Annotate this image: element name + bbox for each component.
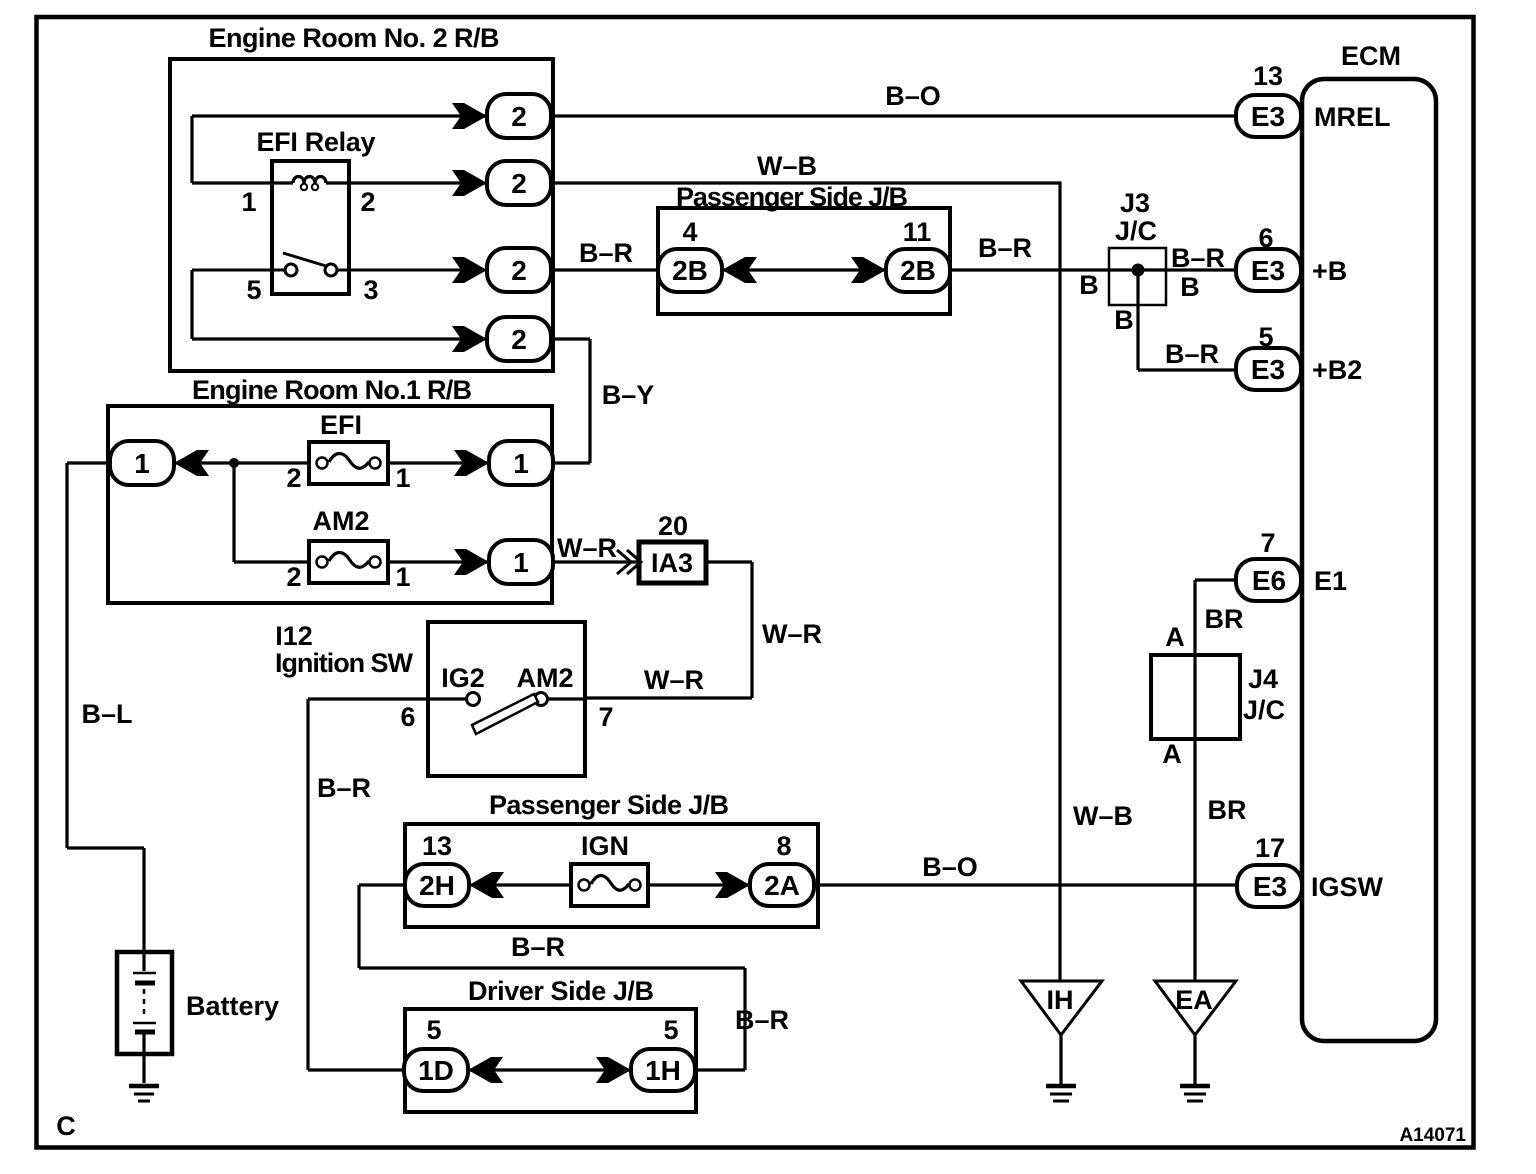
- svg-text:E3: E3: [1251, 255, 1285, 286]
- relay EFI Relay: [257, 127, 376, 294]
- junction box Driver Side J/B: [405, 976, 696, 1112]
- svg-text:5: 5: [246, 275, 261, 305]
- svg-text:4: 4: [682, 217, 697, 247]
- svg-text:Engine Room No.1 R/B: Engine Room No.1 R/B: [192, 375, 472, 405]
- svg-text:IGN: IGN: [581, 831, 629, 861]
- connector E3 pin 5 +B2: [1236, 322, 1362, 390]
- svg-text:J/C: J/C: [1243, 695, 1285, 725]
- svg-text:B: B: [1114, 305, 1134, 335]
- svg-text:7: 7: [598, 702, 613, 732]
- svg-text:6: 6: [400, 702, 415, 732]
- svg-text:2: 2: [360, 187, 375, 217]
- svg-text:C: C: [56, 1111, 76, 1141]
- svg-text:13: 13: [1253, 61, 1283, 91]
- svg-text:B: B: [1079, 270, 1099, 300]
- connector 2B left: [658, 249, 757, 292]
- svg-text:B–Y: B–Y: [602, 380, 655, 410]
- wire W-R IA3 to ignition switch AM2: [585, 562, 752, 698]
- connector E3 pin 17 IGSW: [1237, 833, 1384, 907]
- wire B-O from EFI relay pin 1 to ECM MREL: [192, 116, 1236, 183]
- svg-text:2: 2: [511, 168, 527, 199]
- svg-text:A14071: A14071: [1399, 1125, 1466, 1146]
- wire between 1D and 1H: [468, 1068, 631, 1071]
- svg-text:+B: +B: [1312, 256, 1347, 286]
- svg-text:W–R: W–R: [644, 665, 704, 695]
- svg-text:5: 5: [426, 1015, 441, 1045]
- svg-text:B–R: B–R: [511, 932, 565, 962]
- svg-text:IGSW: IGSW: [1311, 872, 1384, 902]
- svg-text:1H: 1H: [645, 1055, 681, 1086]
- fuse EFI: [309, 410, 388, 484]
- svg-text:ECM: ECM: [1341, 41, 1401, 71]
- svg-text:11: 11: [903, 217, 932, 247]
- svg-text:13: 13: [422, 831, 452, 861]
- svg-text:I12: I12: [275, 621, 313, 651]
- connector 2B right: [851, 249, 950, 292]
- svg-text:W–R: W–R: [762, 619, 822, 649]
- svg-text:AM2: AM2: [312, 506, 369, 536]
- svg-text:2B: 2B: [900, 255, 936, 286]
- svg-text:J3: J3: [1120, 188, 1150, 218]
- connector E6 pin 7 E1: [1236, 528, 1347, 601]
- connector 2 (row 3): [452, 248, 551, 292]
- wire J3 to +B2: [1138, 270, 1236, 370]
- ECM: [1302, 41, 1436, 1041]
- svg-text:2: 2: [286, 562, 301, 592]
- svg-text:B–R: B–R: [978, 233, 1032, 263]
- wire B-L battery to connector 1: [67, 463, 144, 952]
- wire B-Y connector 2 to Engine Room No.1 R/B: [551, 339, 590, 463]
- svg-text:BR: BR: [1208, 795, 1247, 825]
- svg-text:2B: 2B: [672, 255, 708, 286]
- svg-text:20: 20: [658, 511, 688, 541]
- svg-text:EA: EA: [1175, 985, 1213, 1015]
- svg-text:B–R: B–R: [735, 1005, 789, 1035]
- connector IA3 pin 20: [639, 511, 706, 583]
- svg-text:A: A: [1162, 739, 1182, 769]
- svg-text:IA3: IA3: [651, 548, 693, 578]
- connector 2H: [405, 864, 504, 906]
- connector 1H: [596, 1049, 695, 1091]
- svg-text:2: 2: [511, 101, 527, 132]
- svg-text:E3: E3: [1251, 101, 1285, 132]
- connector E3 pin 13 MREL: [1236, 61, 1391, 137]
- wire B-R 2B to J3: [950, 268, 1236, 271]
- svg-text:A: A: [1165, 622, 1185, 652]
- svg-text:1: 1: [513, 547, 529, 578]
- svg-text:+B2: +B2: [1312, 355, 1362, 385]
- wire B-O 2A to ECM IGSW: [814, 883, 1236, 886]
- svg-text:1: 1: [134, 448, 150, 479]
- svg-text:E3: E3: [1251, 354, 1285, 385]
- wire E1 to E6: [1195, 580, 1236, 981]
- junction box Engine Room No.1 R/B: [108, 375, 552, 603]
- switch I12 Ignition SW: [275, 621, 585, 776]
- svg-text:1D: 1D: [418, 1055, 454, 1086]
- svg-text:W–B: W–B: [1073, 801, 1133, 831]
- svg-text:E3: E3: [1253, 871, 1287, 902]
- connector 2 (row 4): [452, 317, 551, 361]
- wire relay pin 5 to connector 2 (B-Y): [192, 270, 487, 339]
- svg-text:MREL: MREL: [1314, 102, 1391, 132]
- svg-text:B–O: B–O: [885, 81, 941, 111]
- connector 1 (AM2 out): [454, 540, 553, 584]
- wire W-R AM2 connector to IA3: [553, 560, 639, 563]
- svg-text:B–L: B–L: [81, 699, 132, 729]
- svg-text:2: 2: [511, 324, 527, 355]
- relay switch contacts: [192, 253, 487, 276]
- svg-text:BR: BR: [1205, 604, 1244, 634]
- svg-text:2: 2: [511, 255, 527, 286]
- junction connector J3 J/C: [1109, 188, 1166, 305]
- svg-text:B–R: B–R: [1171, 243, 1225, 273]
- svg-text:1: 1: [513, 448, 529, 479]
- svg-text:IH: IH: [1047, 985, 1074, 1015]
- svg-text:Driver Side J/B: Driver Side J/B: [468, 976, 654, 1006]
- junction box Passenger Side J/B (lower): [405, 790, 818, 927]
- svg-text:1: 1: [395, 463, 410, 493]
- junction connector J4 J/C: [1151, 622, 1285, 769]
- connector 1D: [404, 1049, 503, 1091]
- svg-text:Engine Room No. 2 R/B: Engine Room No. 2 R/B: [209, 23, 500, 53]
- svg-text:IG2: IG2: [441, 663, 485, 693]
- ignition switch wires and contacts: [308, 693, 585, 735]
- svg-text:E1: E1: [1314, 566, 1347, 596]
- svg-text:1: 1: [241, 187, 256, 217]
- svg-text:7: 7: [1260, 528, 1275, 558]
- ground IH: [1021, 981, 1102, 1101]
- wire AM2 fuse row: [234, 463, 489, 562]
- svg-text:8: 8: [776, 831, 791, 861]
- connector 2 (row 1): [452, 94, 551, 138]
- svg-text:1: 1: [395, 562, 410, 592]
- junction box Passenger Side J/B (upper): [658, 182, 950, 314]
- wire B-R ignition switch to driver side J/B: [308, 699, 404, 1070]
- svg-text:J/C: J/C: [1115, 216, 1157, 246]
- ground below battery: [129, 1086, 159, 1101]
- svg-text:EFI Relay: EFI Relay: [257, 127, 376, 157]
- junction dot: [229, 458, 239, 468]
- svg-text:J4: J4: [1248, 664, 1278, 694]
- svg-text:Ignition SW: Ignition SW: [275, 648, 414, 678]
- svg-text:B: B: [1180, 272, 1200, 302]
- svg-text:B–O: B–O: [922, 852, 978, 882]
- connector 2 (row 2): [452, 161, 551, 205]
- wire B-R 2H to 1H: [359, 885, 745, 1070]
- wire between 2B connectors: [722, 268, 886, 271]
- svg-text:W–R: W–R: [557, 533, 617, 563]
- battery: [117, 952, 279, 1083]
- svg-text:17: 17: [1255, 833, 1285, 863]
- svg-text:B–R: B–R: [1165, 339, 1219, 369]
- connector 2A: [715, 864, 814, 906]
- svg-text:2: 2: [286, 463, 301, 493]
- relay coil wire: [192, 177, 487, 191]
- svg-text:AM2: AM2: [516, 663, 573, 693]
- svg-text:Passenger Side J/B: Passenger Side J/B: [489, 790, 729, 820]
- connector 1 (battery feed): [110, 441, 209, 485]
- ground EA: [1155, 981, 1236, 1101]
- fuse AM2: [309, 506, 388, 583]
- junction box Engine Room No. 2 R/B: [170, 23, 553, 371]
- wire W-B from EFI relay pin 2 to IH ground: [551, 183, 1060, 981]
- chevrons into IA3: [617, 550, 641, 574]
- svg-text:W–B: W–B: [757, 151, 817, 181]
- svg-text:3: 3: [363, 275, 378, 305]
- wire EFI fuse row: [174, 461, 489, 464]
- connector E3 pin 6 +B: [1236, 223, 1347, 291]
- wire B-R connector 2 to Passenger Side J/B 2B: [551, 268, 660, 271]
- connector 1 (EFI out): [454, 441, 553, 485]
- fuse IGN: [571, 831, 648, 906]
- svg-text:E6: E6: [1252, 565, 1286, 596]
- svg-text:2A: 2A: [764, 870, 800, 901]
- svg-text:EFI: EFI: [320, 410, 362, 440]
- svg-text:B–R: B–R: [317, 773, 371, 803]
- svg-text:2H: 2H: [419, 870, 455, 901]
- wire IGN fuse row: [469, 883, 750, 886]
- svg-text:B–R: B–R: [579, 238, 633, 268]
- svg-text:Battery: Battery: [186, 991, 279, 1021]
- svg-text:5: 5: [663, 1015, 678, 1045]
